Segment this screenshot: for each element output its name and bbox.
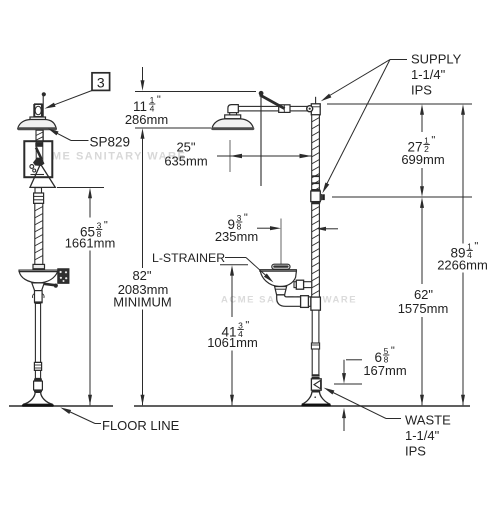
dim 41-3/4in tick xyxy=(220,264,248,266)
svg-text:": " xyxy=(104,220,108,232)
svg-text:1-1/4": 1-1/4" xyxy=(411,67,446,82)
floor line left segment xyxy=(9,405,113,407)
svg-text:2266mm: 2266mm xyxy=(437,258,488,273)
left flange band upper xyxy=(34,378,42,381)
tick line supply level xyxy=(327,103,472,105)
right shower centerline xyxy=(229,140,231,172)
left fitting below triangle xyxy=(35,188,42,193)
svg-text:82": 82" xyxy=(132,268,151,283)
left shower head hat xyxy=(30,117,46,121)
right arm ball joint xyxy=(307,106,313,112)
right waste outlet cone xyxy=(314,380,321,388)
right floor flange base xyxy=(301,404,330,407)
svg-text:": " xyxy=(474,241,478,253)
left floor flange trumpet xyxy=(23,392,52,404)
dim 89-1/4in arrow up xyxy=(461,104,465,115)
svg-text:ACME SANITARY WARE: ACME SANITARY WARE xyxy=(33,151,186,163)
callout 3 box xyxy=(92,73,110,91)
left bowl handle arm xyxy=(44,284,55,285)
dim 9-3/8in right arrow xyxy=(316,227,326,231)
dim 25in line xyxy=(217,155,312,157)
right eyewash spray heads xyxy=(272,264,290,269)
right actuator hub xyxy=(279,105,290,113)
label SUPPLY leader to tee xyxy=(328,60,390,97)
dim 27-1/2in arrow down xyxy=(421,168,423,188)
dim 65-3/8in arrow up xyxy=(88,188,92,199)
label SUPPLY leader stub xyxy=(390,59,407,61)
tick line top of unit xyxy=(135,91,256,93)
right eyewash centerline xyxy=(280,219,282,265)
right shower head rim band xyxy=(211,127,254,130)
left unit stay-open valve xyxy=(34,105,43,117)
right lower pole xyxy=(312,310,319,375)
left pipe below shower head xyxy=(36,130,43,141)
dim 6-5/8in tick upper xyxy=(346,359,362,361)
right arm elbow xyxy=(228,105,238,113)
svg-text:167mm: 167mm xyxy=(363,363,406,378)
floor line right segment xyxy=(134,405,470,407)
svg-text:SP829: SP829 xyxy=(90,135,131,150)
right flange band xyxy=(312,390,320,392)
svg-text:1061mm: 1061mm xyxy=(207,335,258,350)
right waste outlet block xyxy=(311,379,321,390)
right pole band below valve xyxy=(311,202,320,204)
svg-text:235mm: 235mm xyxy=(215,229,258,244)
svg-text:SUPPLY: SUPPLY xyxy=(411,52,462,67)
right pole middle spiral section xyxy=(312,204,320,297)
right pole band above valve xyxy=(311,189,320,191)
svg-text:1661mm: 1661mm xyxy=(65,236,116,251)
right bowl strainer xyxy=(275,287,287,295)
left union coupling xyxy=(34,193,44,203)
dim 62in arrow down xyxy=(421,317,423,405)
svg-text:": " xyxy=(391,345,395,357)
svg-text:IPS: IPS xyxy=(405,444,426,459)
dim 11-1/4in extension above xyxy=(142,67,144,82)
right supply tee xyxy=(311,104,320,115)
label WASTE leader xyxy=(386,418,401,420)
right shower arm pipe xyxy=(238,106,311,111)
right shower head dome xyxy=(212,119,254,129)
right shower head hat xyxy=(225,115,241,119)
left sign panel frame xyxy=(24,141,52,177)
svg-text:": " xyxy=(245,320,249,332)
dim 41-3/4in line lower xyxy=(231,351,233,406)
left eyewash bowl xyxy=(19,270,58,272)
dim 41-3/4in arrow up xyxy=(230,265,234,276)
right pull rod xyxy=(260,96,262,187)
left bowl drain funnel xyxy=(32,283,45,291)
svg-text:MINIMUM: MINIMUM xyxy=(113,295,172,310)
right floor flange trumpet xyxy=(302,392,330,404)
left waste trap xyxy=(35,291,43,303)
left pipe coupling xyxy=(34,362,41,370)
right lever ball xyxy=(259,91,264,96)
left flange barrel xyxy=(34,381,43,390)
right waste union xyxy=(301,296,309,308)
label SP829 leader xyxy=(71,140,89,142)
svg-text:": " xyxy=(431,135,435,147)
svg-text:286mm: 286mm xyxy=(125,112,168,127)
left shower head rim band xyxy=(17,127,57,130)
svg-text:WASTE: WASTE xyxy=(405,413,451,428)
right eyewash bowl xyxy=(260,271,296,286)
callout 3 leader xyxy=(52,90,92,105)
left shower head dome xyxy=(18,120,56,129)
right flow valve xyxy=(311,191,321,202)
right supply arm union xyxy=(296,280,303,289)
right eyewash bowl rim xyxy=(260,270,297,272)
right pole waste tee xyxy=(311,297,321,310)
dim 6-5/8in tick waste level xyxy=(334,383,362,385)
left unit pull rod xyxy=(42,93,44,171)
svg-text:L-STRAINER: L-STRAINER xyxy=(152,251,225,265)
svg-text:": " xyxy=(244,212,248,224)
right waste elbow pipe xyxy=(277,295,311,306)
tick line shower head level xyxy=(135,127,211,129)
right supply nipple xyxy=(315,97,317,104)
dim 6-5/8in arrow down xyxy=(343,360,345,374)
right bowl supply arm xyxy=(294,282,312,288)
left pipe inside sign panel xyxy=(36,142,43,164)
left bowl collar xyxy=(33,264,45,269)
svg-text:1575mm: 1575mm xyxy=(398,301,449,316)
right lower pole coupling xyxy=(311,343,319,349)
svg-text:25": 25" xyxy=(176,140,195,155)
left flange band lower xyxy=(34,390,42,392)
dim 11-1/4in arrow below xyxy=(141,128,145,139)
left bowl valve box xyxy=(58,269,69,283)
svg-text:1-1/4": 1-1/4" xyxy=(405,428,440,443)
left unit pull rod ball xyxy=(42,92,46,96)
right actuator lever xyxy=(260,95,285,109)
dim 9-3/8in left arrow xyxy=(257,227,270,229)
dim 89-1/4in line lower xyxy=(462,273,464,406)
svg-text:62": 62" xyxy=(414,287,433,302)
label FLOOR LINE leader xyxy=(95,423,101,425)
svg-text:635mm: 635mm xyxy=(164,154,207,169)
left lower pipe xyxy=(35,303,40,362)
svg-text:3: 3 xyxy=(97,74,105,90)
right pole upper spiral section xyxy=(312,115,320,191)
dim 6-5/8in arrow below floor xyxy=(342,408,346,419)
left floor flange base xyxy=(22,404,54,407)
label L-STRAINER leader xyxy=(225,257,246,259)
left standpipe with spiral wrap xyxy=(35,203,43,264)
svg-text:FLOOR LINE: FLOOR LINE xyxy=(102,418,180,433)
tick line eyewash level left xyxy=(57,187,104,189)
label SUPPLY leader to valve xyxy=(326,60,390,186)
right pole bands above waste outlet xyxy=(312,375,320,377)
dim 62in arrow up xyxy=(420,197,424,208)
left pipe stub xyxy=(35,370,40,378)
dim 27-1/2in arrow up xyxy=(420,104,424,115)
dim 82in line lower xyxy=(142,310,144,406)
svg-text:": " xyxy=(157,94,161,106)
left pull handle triangle xyxy=(30,164,55,187)
svg-text:IPS: IPS xyxy=(411,83,432,98)
left eyewash mechanism detail xyxy=(35,143,42,147)
tick line valve level xyxy=(332,196,472,198)
svg-text:699mm: 699mm xyxy=(401,152,444,167)
right flow valve knob xyxy=(320,193,324,201)
dim 65-3/8in line lower xyxy=(89,251,91,406)
